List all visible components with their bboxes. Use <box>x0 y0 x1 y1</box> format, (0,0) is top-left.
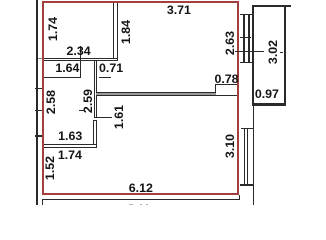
wire: bottom outer line <box>42 199 240 201</box>
wire: left baseline tick 3 <box>35 110 43 111</box>
balcony: left line <box>252 5 254 106</box>
label 0.97 <box>255 88 279 100</box>
window: top-right bottom cap <box>240 62 253 63</box>
wire: 3.02 right tick <box>280 52 284 53</box>
balcony: bottom line <box>252 103 286 105</box>
label 1.63 <box>58 130 82 142</box>
wall P0: top-left room right wall <box>113 3 118 57</box>
label 1.61 (rotated) <box>113 105 125 129</box>
wall W1: long interior wall top line <box>96 92 216 94</box>
wall W1: core shading <box>96 93 216 94</box>
wire: dim tick under 0.71 <box>99 77 112 78</box>
wire: dim line under 1.64 <box>44 77 81 78</box>
wall P1: hall partition left line <box>94 61 95 118</box>
wall: right outer face below balcony <box>253 105 255 206</box>
label 1.64 <box>55 61 79 73</box>
label 3.71 <box>167 4 191 16</box>
wire: extension line from 2.34 <box>80 46 81 78</box>
wall W1: step top line to red wall <box>215 84 238 85</box>
label 3.10 (rotated) <box>224 134 236 158</box>
label 2.63 (rotated) <box>224 31 236 55</box>
window: top-right top cap <box>240 14 253 15</box>
balcony: right line <box>284 5 286 106</box>
wall P2: bathroom right wall <box>93 120 97 144</box>
window: lower-right glazing line 1 <box>244 129 245 185</box>
label 1.84 (rotated) <box>119 20 131 44</box>
wire: 2.63/3.02 leader line <box>235 51 264 52</box>
wall: red apartment outline <box>42 1 240 195</box>
wire: P1 bottom cap / 1.61 leader <box>94 117 111 118</box>
wall W1: step vertical at 0.78 niche <box>215 84 216 94</box>
wire: left outer wall baseline <box>36 0 37 205</box>
label 1.52 (rotated) <box>44 156 56 180</box>
wire: left baseline tick 2 <box>35 88 43 89</box>
window: top-right glazing line 2 <box>248 14 250 64</box>
label 6.12 <box>129 181 153 193</box>
wall W0: top-left room bottom wall <box>44 58 119 61</box>
label 0.78 <box>214 73 238 85</box>
wall P1: hall partition right line <box>96 61 97 118</box>
wire: bottom line left hook <box>42 199 43 205</box>
label 1.74 left (rotated) <box>47 17 59 41</box>
wire: left baseline tick 4 <box>35 135 43 136</box>
wire: 2.59 leader tick <box>79 110 84 111</box>
wall W1: long interior wall bottom line <box>96 95 237 97</box>
label 1.74 bottom <box>58 149 82 161</box>
window: lower-right glazing line 2 <box>247 129 248 185</box>
label 2.58 (rotated) <box>45 90 57 114</box>
window: lower-right bottom cap <box>240 184 254 186</box>
balcony: top line <box>252 5 291 7</box>
wall W2: bathroom bottom wall <box>44 144 97 148</box>
wire: left baseline tick 1 (faint) <box>38 58 43 59</box>
label 0.71 <box>99 62 123 74</box>
label 3.02 (rotated) <box>266 39 278 63</box>
wire: window mid tick <box>240 37 251 38</box>
label 2.34 <box>67 44 91 56</box>
wire: lower window top tick <box>241 128 253 129</box>
window: top-right glazing line 1 <box>243 14 245 64</box>
wire: bottom line right hook <box>239 195 240 200</box>
label 2.59 (rotated) <box>81 88 93 112</box>
ghost: cropped text remnants <box>129 204 133 206</box>
